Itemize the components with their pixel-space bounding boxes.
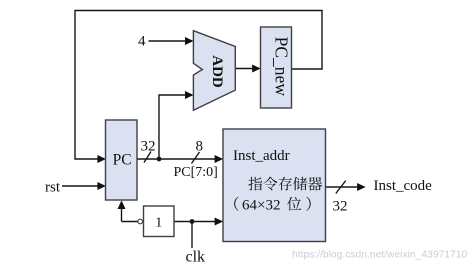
svg-text:https://blog.csdn.net/weixin_4: https://blog.csdn.net/weixin_43971710 (292, 250, 467, 261)
svg-text:PC: PC (113, 152, 132, 169)
svg-text:8: 8 (196, 139, 204, 155)
svg-text:Inst_addr: Inst_addr (233, 148, 290, 164)
svg-text:4: 4 (138, 34, 146, 50)
svg-text:Inst_code: Inst_code (374, 178, 433, 194)
svg-text:PC[7:0]: PC[7:0] (174, 165, 218, 180)
svg-text:ADD: ADD (209, 55, 225, 88)
svg-text:64×32: 64×32 (242, 198, 280, 214)
svg-text:clk: clk (186, 249, 206, 266)
svg-text:rst: rst (45, 180, 61, 196)
svg-text:PC_new: PC_new (271, 37, 291, 97)
svg-text:1: 1 (155, 216, 162, 231)
svg-text:32: 32 (333, 199, 348, 215)
svg-text:32: 32 (141, 139, 156, 155)
